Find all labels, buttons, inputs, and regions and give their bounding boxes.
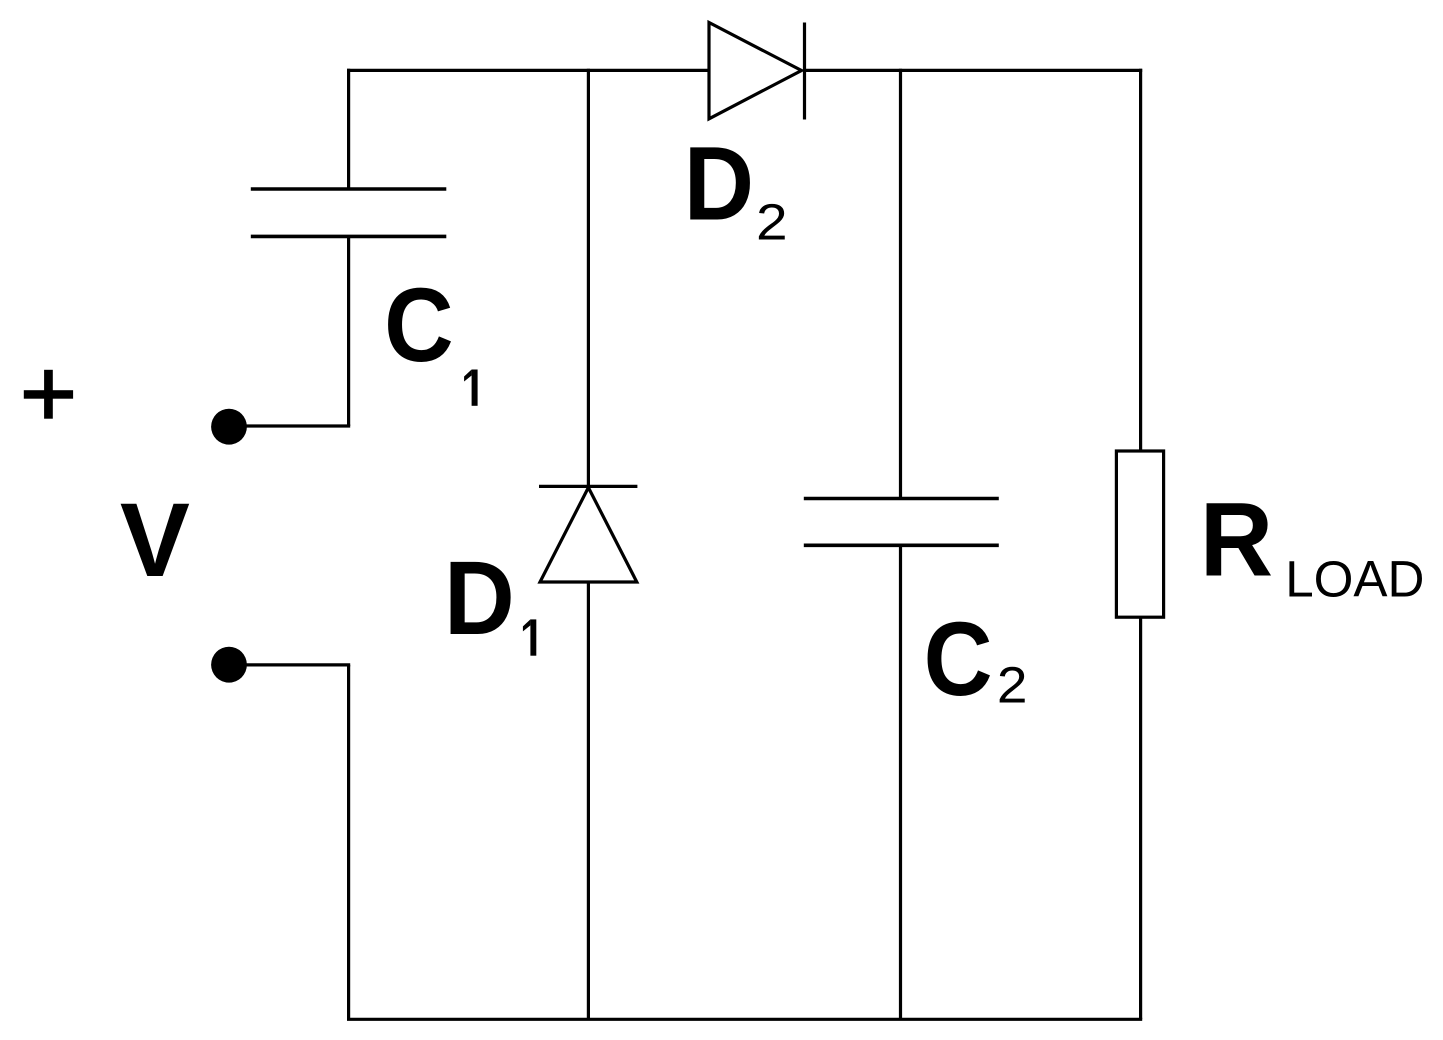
label D1 [444, 539, 536, 657]
wire to top terminal [229, 424, 350, 427]
wire top-left segment [347, 69, 709, 72]
svg-text:V: V [120, 482, 190, 599]
svg-text:R: R [1200, 480, 1273, 598]
svg-text:D: D [684, 125, 754, 242]
svg-text:C: C [924, 601, 993, 718]
svg-text:LOAD: LOAD [1285, 550, 1424, 607]
wire C2 branch upper [899, 69, 902, 499]
label C2 [924, 601, 1028, 718]
wire left branch upper [347, 69, 350, 189]
wire right branch upper [1139, 69, 1142, 451]
label + (polarity) [24, 370, 73, 419]
label D2 [684, 125, 788, 251]
wire left branch lower [347, 665, 350, 1019]
wire D1 branch upper [587, 69, 590, 487]
wire right branch lower [1139, 617, 1142, 1019]
capacitor C1 [251, 189, 446, 236]
resistor RLOAD [1116, 451, 1163, 617]
terminal node top [211, 409, 247, 445]
svg-text:2: 2 [997, 657, 1028, 714]
wire bottom [347, 1018, 1142, 1021]
wire top-right segment [803, 69, 1142, 72]
diode D1 [539, 486, 637, 582]
wire left branch middle [347, 236, 350, 426]
svg-text:2: 2 [756, 194, 788, 251]
capacitor C2 [804, 499, 999, 546]
wire C2 branch lower [899, 545, 902, 1019]
wire D1 branch lower [587, 582, 590, 1019]
diode D2 [709, 23, 805, 120]
svg-text:C: C [384, 267, 454, 384]
svg-text:D: D [444, 539, 515, 657]
terminal node bottom [211, 647, 247, 683]
wire from bottom terminal [229, 663, 350, 666]
label RLOAD [1200, 480, 1425, 607]
label C1 [384, 267, 478, 406]
